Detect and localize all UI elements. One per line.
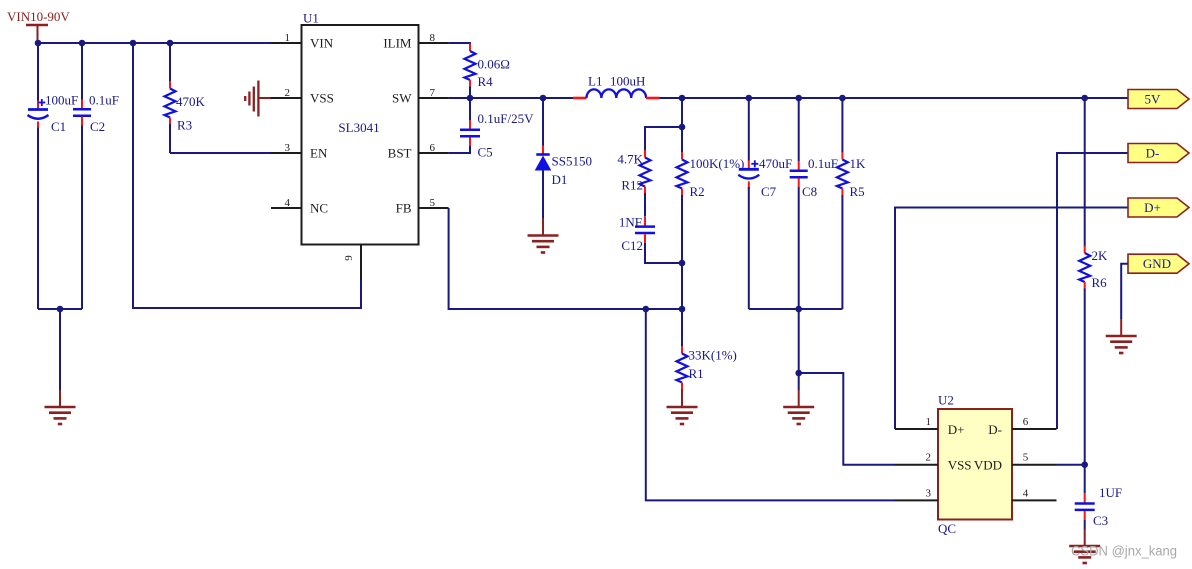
svg-text:33K(1%): 33K(1%) <box>689 348 737 363</box>
svg-text:100K(1%): 100K(1%) <box>690 156 745 171</box>
svg-text:R1: R1 <box>689 366 704 381</box>
resistor R1 33K(1%) <box>677 309 737 407</box>
svg-text:100uF: 100uF <box>45 93 78 108</box>
wire C1-C2 bottom <box>38 306 82 390</box>
junction dots on VIN rail <box>35 40 174 47</box>
capacitor C5 0.1uF/25V <box>449 98 534 160</box>
svg-text:470uF: 470uF <box>759 156 792 171</box>
svg-text:C12: C12 <box>621 238 643 253</box>
ground (R1) <box>667 407 698 424</box>
svg-text:SL3041: SL3041 <box>338 120 379 135</box>
U2 left pins 1,2,3 <box>895 416 938 500</box>
svg-text:BST: BST <box>388 146 412 161</box>
svg-text:1: 1 <box>285 32 291 44</box>
svg-text:C2: C2 <box>90 119 105 134</box>
capacitor C8 0.1uF <box>790 98 838 309</box>
svg-text:8: 8 <box>430 32 436 44</box>
resistor R12 4.7K <box>617 127 682 217</box>
svg-text:VSS: VSS <box>310 91 334 106</box>
svg-text:R6: R6 <box>1092 275 1108 290</box>
op-amp U1 SL3041 body <box>302 11 419 245</box>
wire to U2 pin3 <box>646 309 895 500</box>
svg-text:1K: 1K <box>850 156 867 171</box>
resistor R4 0.06ohm <box>449 43 510 98</box>
svg-text:1UF: 1UF <box>1099 485 1122 500</box>
resistor R3 470K <box>165 43 272 153</box>
svg-text:5V: 5V <box>1145 92 1162 107</box>
svg-text:470K: 470K <box>176 94 206 109</box>
svg-text:2: 2 <box>285 87 291 99</box>
svg-text:R5: R5 <box>850 184 865 199</box>
svg-text:C3: C3 <box>1093 513 1108 528</box>
diode D1 SS5150 <box>535 98 592 218</box>
svg-text:5: 5 <box>430 197 436 209</box>
svg-text:FB: FB <box>396 201 412 216</box>
svg-text:SW: SW <box>392 91 412 106</box>
svg-text:VIN10-90V: VIN10-90V <box>7 9 70 24</box>
svg-text:0.1uF: 0.1uF <box>89 93 119 108</box>
svg-text:7: 7 <box>430 87 436 99</box>
ground (VSS pin 2, sideways) <box>245 81 272 117</box>
svg-text:4: 4 <box>1023 487 1029 499</box>
junction dots on SW/5V rail <box>467 95 1088 102</box>
ground (GND connector) <box>1106 319 1137 353</box>
wire GND connector to ground <box>1121 264 1128 319</box>
svg-text:D+: D+ <box>1144 200 1161 215</box>
svg-text:C5: C5 <box>478 145 493 160</box>
wire D- net <box>1057 153 1128 429</box>
svg-text:ILIM: ILIM <box>383 36 412 51</box>
inductor L1 100uH and SW/5V rail <box>449 74 1128 99</box>
resistor R5 1K <box>837 98 866 309</box>
ic U2 (QC) body <box>938 393 1012 537</box>
capacitor C12 1NF <box>619 215 682 264</box>
svg-text:C7: C7 <box>761 184 777 199</box>
capacitor C3 1UF <box>1075 485 1122 530</box>
connector D+ <box>1128 198 1189 217</box>
svg-text:R2: R2 <box>690 184 705 199</box>
svg-text:4.7K: 4.7K <box>617 151 643 166</box>
connector GND <box>1128 254 1189 273</box>
resistor R6 2K <box>1079 98 1108 494</box>
capacitor C1 100uF (polarized) <box>28 43 79 309</box>
ground (C8 node) <box>783 373 814 424</box>
svg-text:R12: R12 <box>621 178 643 193</box>
svg-text:3: 3 <box>926 487 932 499</box>
svg-text:R4: R4 <box>478 74 494 89</box>
svg-text:D-: D- <box>1146 146 1160 161</box>
svg-text:D-: D- <box>988 422 1002 437</box>
svg-text:VSS: VSS <box>948 458 972 473</box>
U1 left pins 1-4 (VIN,VSS,EN,NC) <box>271 32 334 216</box>
svg-text:U2: U2 <box>938 393 954 408</box>
svg-text:VDD: VDD <box>974 458 1002 473</box>
capacitor C2 0.1uF <box>73 43 119 309</box>
connector D- <box>1128 144 1189 163</box>
svg-text:100uH: 100uH <box>610 74 645 89</box>
junction dots R12 branch <box>679 124 686 267</box>
wire D+ net <box>895 208 1128 430</box>
svg-text:2K: 2K <box>1092 248 1109 263</box>
svg-text:1NF: 1NF <box>619 215 642 230</box>
svg-text:2: 2 <box>926 452 932 464</box>
svg-text:0.06Ω: 0.06Ω <box>478 57 510 72</box>
U1 right pins 8,7,6,5 (ILIM,SW,BST,FB) <box>383 32 448 216</box>
capacitor C7 470uF (polarized) <box>738 98 792 309</box>
svg-text:R3: R3 <box>177 118 192 133</box>
svg-text:L1: L1 <box>588 74 602 89</box>
svg-text:0.1uF/25V: 0.1uF/25V <box>478 111 535 126</box>
svg-text:4: 4 <box>285 197 291 209</box>
wire VIN rail y=43 <box>37 42 271 44</box>
svg-text:5: 5 <box>1023 452 1029 464</box>
svg-text:D1: D1 <box>552 172 568 187</box>
svg-text:U1: U1 <box>303 11 319 26</box>
svg-text:3: 3 <box>285 142 291 154</box>
U1 pin 9 <box>343 245 361 281</box>
svg-text:1: 1 <box>926 416 932 428</box>
wire FB net <box>449 208 686 312</box>
svg-text:D+: D+ <box>948 422 965 437</box>
U2 right pins 6,5,4 <box>1012 416 1057 500</box>
svg-text:0.1uF: 0.1uF <box>808 156 838 171</box>
wire C7-R5 bottom rail <box>749 306 843 313</box>
ground (D1) <box>528 218 559 253</box>
svg-text:C1: C1 <box>51 119 66 134</box>
svg-text:EN: EN <box>310 146 328 161</box>
svg-text:NC: NC <box>310 201 328 216</box>
wire loop to pin9 <box>133 43 362 309</box>
resistor R2 100K(1%) <box>677 98 745 309</box>
svg-text:6: 6 <box>430 142 436 154</box>
watermark <box>1071 543 1177 559</box>
svg-text:QC: QC <box>938 521 956 536</box>
wire U2 pin5 to C3 node <box>1057 464 1085 466</box>
svg-text:SS5150: SS5150 <box>552 154 592 169</box>
svg-text:CSDN @jnx_kang: CSDN @jnx_kang <box>1071 543 1177 559</box>
ground (C3) <box>1069 530 1100 564</box>
connector 5V <box>1128 90 1189 109</box>
svg-text:9: 9 <box>343 255 355 261</box>
svg-text:C8: C8 <box>802 184 817 199</box>
svg-text:GND: GND <box>1143 256 1171 271</box>
wire to U2 VSS <box>795 309 895 465</box>
ground (input) <box>45 390 76 424</box>
svg-text:6: 6 <box>1023 416 1029 428</box>
power port VIN10-90V <box>7 9 70 43</box>
svg-text:VIN: VIN <box>310 36 334 51</box>
